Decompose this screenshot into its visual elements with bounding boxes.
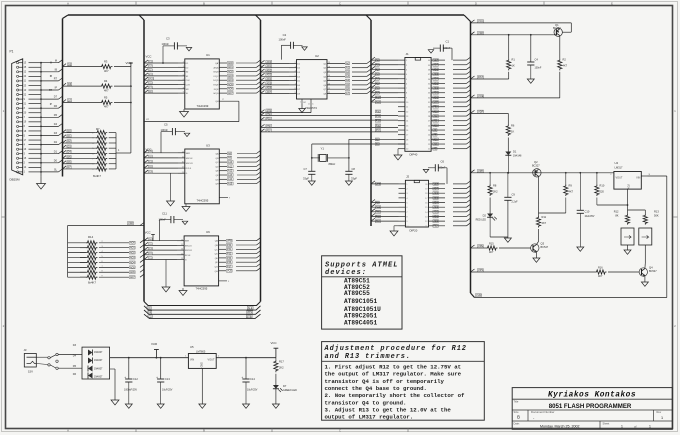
net label VPS bbox=[477, 269, 483, 272]
svg-text:AT89C1051: AT89C1051 bbox=[344, 298, 377, 305]
connector P1 pin 14 bbox=[17, 166, 19, 168]
svg-text:8: 8 bbox=[406, 216, 408, 218]
svg-text:4K7: 4K7 bbox=[104, 69, 109, 73]
net label VUR bbox=[475, 294, 481, 297]
net tag at U6 SRCLR bbox=[148, 247, 152, 250]
svg-text:Kyriakos Kontakos: Kyriakos Kontakos bbox=[548, 392, 636, 400]
svg-text:VUR: VUR bbox=[151, 342, 157, 346]
wire AD7 to right bus bbox=[453, 188, 467, 190]
wire A5 to left address bus bbox=[352, 84, 367, 86]
svg-text:A13: A13 bbox=[434, 110, 439, 113]
ground under U3 right bbox=[185, 204, 187, 207]
net label AD5 at U2 bbox=[266, 82, 272, 85]
svg-text:C7: C7 bbox=[304, 167, 308, 171]
wire A13 to right bus bbox=[453, 110, 467, 112]
wire A5 bus to J1 bbox=[371, 82, 398, 84]
svg-text:A11: A11 bbox=[228, 165, 233, 168]
bus top horizontal bbox=[68, 14, 464, 16]
J2 right pin 16 bbox=[429, 202, 446, 204]
svg-text:C13: C13 bbox=[165, 377, 170, 381]
ground under U1 bbox=[183, 109, 185, 112]
svg-text:13: 13 bbox=[406, 116, 409, 118]
wire D7 to ground bbox=[275, 389, 277, 404]
wire XTAL2 from J1 pin18 bbox=[349, 138, 405, 140]
wire AD3 bus to U2 bbox=[261, 75, 290, 77]
svg-text:C/QC: C/QC bbox=[213, 76, 219, 78]
wire P1 signal to bus bbox=[41, 125, 59, 127]
svg-text:12: 12 bbox=[181, 253, 183, 255]
J1 left pin 3 bbox=[398, 68, 405, 70]
R14 element 2 bbox=[80, 247, 86, 249]
svg-text:G/QG: G/QG bbox=[213, 93, 219, 95]
svg-text:+: + bbox=[241, 376, 243, 380]
svg-text:VCC: VCC bbox=[146, 148, 152, 152]
svg-text:QF: QF bbox=[215, 262, 219, 264]
net label P30 at U6 bbox=[226, 244, 232, 247]
bus entry diagonal left bus bbox=[59, 60, 63, 63]
svg-text:C14: C14 bbox=[250, 377, 255, 381]
svg-text:AD2: AD2 bbox=[228, 71, 233, 74]
svg-text:10uF/25V: 10uF/25V bbox=[585, 216, 595, 218]
wire A7 to left address bus bbox=[352, 93, 367, 95]
net label C1 bbox=[147, 311, 151, 314]
svg-text:Q1: Q1 bbox=[555, 23, 559, 27]
wire A9 bus to J2 bbox=[371, 202, 399, 204]
net label AD1 at J1 right bbox=[433, 91, 439, 94]
connector P1 pin 10 bbox=[17, 89, 19, 91]
U3 left pin SRCLK bbox=[178, 157, 185, 159]
J1 right pin 30 bbox=[431, 106, 445, 108]
wire P1 pin 9 to junction column bbox=[29, 98, 42, 100]
connector P1 pin 22 bbox=[17, 93, 19, 95]
svg-text:5: 5 bbox=[406, 203, 408, 205]
U3 left pin G bbox=[178, 172, 185, 174]
svg-text:R12: R12 bbox=[614, 210, 619, 214]
svg-text:8: 8 bbox=[406, 93, 408, 95]
svg-text:ALE: ALE bbox=[376, 206, 381, 209]
svg-text:DIP40: DIP40 bbox=[410, 153, 418, 157]
U2 left pin D7 bbox=[289, 88, 297, 90]
J1 left pin 8 bbox=[398, 92, 405, 94]
svg-text:C8: C8 bbox=[352, 167, 356, 171]
svg-text:Q6: Q6 bbox=[323, 85, 327, 87]
wire AD5 to right bus bbox=[453, 197, 467, 199]
wire bus to U1 SL bbox=[144, 92, 178, 94]
wire C6 tap bbox=[438, 167, 447, 169]
net tag at U1 row 8 bbox=[148, 90, 152, 93]
J2 right pin 20 bbox=[429, 183, 446, 185]
svg-text:AD3: AD3 bbox=[130, 256, 135, 259]
U6 right pin QD bbox=[219, 253, 226, 255]
svg-text:QB: QB bbox=[215, 158, 219, 160]
R14 element 3 bbox=[80, 252, 86, 254]
wire P1 pin 24 to junction column bbox=[29, 75, 42, 77]
U1 right pin E/QE bbox=[219, 84, 227, 86]
wire P1 signal to bus bbox=[41, 89, 59, 91]
resistor R2 bbox=[558, 59, 562, 71]
J2 right pin 15 bbox=[429, 206, 446, 208]
bus top entry at x=260.5 bbox=[256, 15, 261, 20]
svg-text:29: 29 bbox=[428, 111, 431, 113]
bus entry VDP right side bbox=[471, 110, 475, 113]
U3 left pin SRCLR bbox=[178, 162, 185, 164]
svg-text:12: 12 bbox=[425, 221, 428, 223]
wire D6 to resistor R4 bbox=[63, 85, 101, 87]
net label AD3 at J2 right bbox=[433, 206, 439, 209]
U6 right pin QB bbox=[219, 244, 226, 246]
bus entry VPP right bus bbox=[467, 99, 471, 102]
connector P1 pin 12 bbox=[17, 71, 19, 73]
socket J2 DIP20 box bbox=[405, 180, 428, 227]
svg-text:1: 1 bbox=[674, 109, 676, 113]
ground for C13 bbox=[160, 382, 162, 404]
title block row separator 2 bbox=[512, 409, 672, 411]
wire P1 pin 6 to junction column bbox=[29, 125, 42, 127]
crystal Y1 bbox=[320, 154, 327, 161]
adjustment procedure box bbox=[322, 342, 485, 421]
wire AD2 to right bus bbox=[453, 211, 467, 213]
wire D3 to network resistor bbox=[63, 147, 96, 149]
wire P1 signal to bus bbox=[41, 153, 59, 155]
svg-text:RCLK: RCLK bbox=[185, 255, 191, 257]
wire R9 bottom bbox=[565, 198, 567, 214]
net label A3 at J1 left bbox=[375, 73, 379, 76]
capacitor C7 bbox=[308, 170, 315, 172]
net label P33 at U6 bbox=[226, 256, 232, 259]
title block row separator 1 bbox=[512, 398, 672, 400]
svg-text:VDP: VDP bbox=[434, 184, 439, 186]
svg-text:B/QB: B/QB bbox=[214, 72, 220, 74]
svg-text:2: 2 bbox=[610, 174, 612, 176]
net label P52 at J1 left bbox=[375, 119, 381, 122]
bus entry A4 into address bus bbox=[367, 78, 371, 81]
ground for P1 shield bbox=[40, 177, 42, 184]
svg-text:2K2: 2K2 bbox=[493, 190, 498, 194]
net tag at U3 SRCLR bbox=[148, 160, 152, 163]
net label A5 at U2 bbox=[345, 83, 349, 86]
wire RST bbox=[471, 78, 509, 80]
bus entry A16 right bus bbox=[467, 136, 471, 139]
svg-text:20: 20 bbox=[406, 149, 409, 151]
svg-text:AD6: AD6 bbox=[130, 271, 135, 274]
svg-text:U1: U1 bbox=[206, 53, 210, 57]
wire AD4 to right bus bbox=[453, 202, 467, 204]
svg-text:D5: D5 bbox=[297, 81, 301, 83]
svg-text:32: 32 bbox=[428, 97, 431, 99]
svg-text:VDP: VDP bbox=[434, 60, 439, 62]
wire bus to U3 G bbox=[144, 172, 178, 174]
J2 right pin 19 bbox=[429, 188, 446, 190]
transistor Q4 BC547 bbox=[639, 268, 647, 276]
svg-text:VPS: VPS bbox=[247, 311, 252, 314]
U1 right pin D/QD bbox=[219, 79, 227, 81]
svg-text:R14: R14 bbox=[88, 235, 94, 239]
bus wire STB bottom bbox=[144, 314, 261, 318]
svg-text:VOUT: VOUT bbox=[616, 177, 623, 180]
svg-text:VCC: VCC bbox=[146, 55, 152, 59]
wire R3 to VCC node bbox=[114, 66, 131, 68]
svg-text:QC: QC bbox=[215, 162, 219, 164]
bus entry AD1 at U2 bbox=[261, 65, 265, 68]
svg-text:6: 6 bbox=[183, 79, 184, 81]
bus entry AD3 at R14 bbox=[140, 255, 144, 258]
svg-text:transistor Q4 to ground.: transistor Q4 to ground. bbox=[325, 399, 407, 406]
net label A3 at U2 bbox=[345, 75, 349, 78]
J1 right pin 40 bbox=[431, 59, 445, 61]
svg-text:8: 8 bbox=[24, 108, 26, 110]
net label A9 at J2 left bbox=[375, 201, 379, 204]
svg-text:J3: J3 bbox=[24, 348, 27, 352]
wire C3 to VCC tap bbox=[163, 45, 174, 47]
svg-text:17: 17 bbox=[222, 99, 224, 101]
U6 left pin SRCLR bbox=[177, 249, 184, 251]
svg-text:D4: D4 bbox=[297, 76, 301, 78]
title block row separator 3 bbox=[512, 420, 672, 422]
bus entry at U1 row 4 bbox=[144, 73, 148, 76]
svg-text:U6: U6 bbox=[206, 230, 210, 234]
svg-text:BC547: BC547 bbox=[649, 270, 657, 273]
svg-text:QC: QC bbox=[215, 249, 219, 251]
U1 left pin CLK bbox=[178, 79, 185, 81]
svg-text:16: 16 bbox=[406, 130, 409, 132]
svg-text:38: 38 bbox=[428, 69, 431, 71]
wire P1 signal to bus bbox=[41, 71, 59, 73]
bus entry at U3 RCLK bbox=[144, 165, 148, 168]
svg-text:SL: SL bbox=[186, 93, 189, 95]
svg-text:30: 30 bbox=[428, 107, 431, 109]
wire D1 to network resistor bbox=[63, 137, 96, 139]
wire VUR horizontal bbox=[475, 297, 667, 299]
svg-text:13: 13 bbox=[181, 258, 183, 260]
wire bus to U6 G bbox=[144, 259, 177, 261]
bus entry for D7 bbox=[63, 166, 67, 169]
wire P57 central bus to J1 bbox=[261, 131, 399, 133]
svg-text:P56: P56 bbox=[376, 125, 381, 127]
bus entry P33 into right bus bbox=[236, 257, 257, 259]
bus entry VOE right side bbox=[471, 95, 475, 98]
svg-text:4K7: 4K7 bbox=[489, 251, 494, 254]
R14 element 8 bbox=[80, 276, 86, 278]
net tag at U1 row 4 bbox=[148, 73, 152, 76]
wire VDP bbox=[471, 34, 554, 36]
net label AD7 at U1 bbox=[227, 92, 233, 95]
wire bus to U3 SRCLR bbox=[144, 162, 178, 164]
U3 right pin QG bbox=[219, 178, 227, 180]
svg-text:D7: D7 bbox=[54, 96, 58, 99]
ground for C5 bbox=[175, 131, 185, 133]
J1 left pin 4 bbox=[398, 73, 405, 75]
bus entry A14 at J1 bbox=[371, 99, 375, 102]
bus entry AD6 right bus bbox=[467, 190, 471, 193]
svg-text:9: 9 bbox=[295, 92, 296, 94]
svg-text:A/QA: A/QA bbox=[214, 66, 220, 69]
wire AE to right bus bbox=[453, 148, 467, 150]
net label D6 bbox=[67, 161, 71, 164]
svg-text:D4: D4 bbox=[54, 123, 58, 126]
wire P1 pin 21 to junction column bbox=[29, 103, 42, 105]
svg-text:39: 39 bbox=[428, 65, 431, 67]
bus entry P54 at J2 bbox=[371, 218, 375, 221]
bus entry A7 into address bus bbox=[367, 91, 371, 94]
capacitor C9 bbox=[507, 173, 509, 197]
svg-text:D7: D7 bbox=[283, 384, 287, 388]
net label VDP bbox=[477, 32, 483, 35]
wire P1 pin 8 to junction column bbox=[29, 107, 42, 109]
ground under U6 left bbox=[165, 260, 167, 288]
svg-text:R1: R1 bbox=[512, 58, 516, 62]
svg-text:9: 9 bbox=[183, 92, 184, 94]
U1 left pin SR bbox=[178, 88, 185, 90]
connector P1 pin 3 bbox=[17, 153, 19, 155]
capacitor C14 bbox=[245, 357, 247, 359]
svg-text:RT: RT bbox=[54, 78, 58, 81]
wire RST bus to J1 bbox=[371, 96, 398, 98]
svg-text:A10: A10 bbox=[228, 161, 233, 164]
net label AD4 at J1 right bbox=[433, 77, 439, 80]
wire P1 pin 11 to junction column bbox=[29, 80, 42, 82]
ground for C14 bbox=[245, 382, 247, 404]
net label AD2 at J1 right bbox=[433, 87, 439, 90]
J1 right pin 29 bbox=[431, 110, 445, 112]
bus entry diagonal left bus bbox=[59, 87, 63, 90]
net label P56 bbox=[266, 124, 272, 127]
wire bus to U1 S1 bbox=[144, 75, 178, 77]
svg-text:14: 14 bbox=[425, 212, 428, 214]
svg-text:R2: R2 bbox=[563, 58, 567, 62]
J1 right pin 27 bbox=[431, 120, 445, 122]
wire AD4 bus to U2 bbox=[261, 80, 290, 82]
svg-text:P30: P30 bbox=[227, 244, 232, 247]
junction dot bbox=[40, 116, 42, 118]
svg-text:19: 19 bbox=[406, 144, 409, 146]
wire VPP to right bus bbox=[453, 101, 467, 103]
net label P32 at U6 bbox=[226, 252, 232, 255]
net label P36 at U6 bbox=[226, 261, 232, 264]
U2 right pin Q5 bbox=[327, 80, 345, 82]
svg-text:AD1: AD1 bbox=[228, 66, 233, 69]
J2 left pin 9 bbox=[399, 220, 406, 222]
U6 right pin QC bbox=[219, 248, 226, 250]
wire bus to U3 SRCLK bbox=[144, 157, 178, 159]
U2 left pin D3 bbox=[289, 71, 297, 73]
wire P1 pin 19 to junction column bbox=[29, 121, 42, 123]
net label X2 at J1 left bbox=[375, 138, 379, 141]
bus entry at U1 row 2 bbox=[144, 64, 148, 67]
bus entry for D6 bbox=[63, 161, 67, 164]
wire VCC down to Q1 base bbox=[570, 23, 572, 32]
wire Q1 base bbox=[562, 31, 571, 33]
wire bus to U1 SR bbox=[144, 88, 178, 90]
wire A10 to right bus bbox=[453, 124, 467, 126]
svg-text:10: 10 bbox=[24, 90, 27, 92]
svg-text:20: 20 bbox=[24, 113, 27, 115]
bus entry at U1 row 5 bbox=[144, 77, 148, 80]
svg-text:D/QD: D/QD bbox=[213, 80, 219, 82]
net label A9 at J1 right bbox=[433, 129, 437, 132]
bus entry AD0 right bus bbox=[467, 94, 471, 97]
wire VPP bus to J2 bbox=[371, 183, 399, 185]
wire R5 to VCC vertical bbox=[114, 102, 131, 104]
net label A0 at J1 left bbox=[375, 59, 379, 62]
svg-text:11: 11 bbox=[24, 81, 27, 83]
svg-text:14: 14 bbox=[182, 151, 184, 153]
svg-text:21: 21 bbox=[428, 149, 431, 151]
svg-text:Rev: Rev bbox=[657, 410, 662, 414]
bus entry AD7 at R14 bbox=[140, 274, 144, 277]
svg-text:Q8: Q8 bbox=[323, 94, 327, 96]
capacitor C12 bbox=[128, 357, 130, 359]
U6 right pin QA bbox=[219, 240, 226, 242]
bus entry A0 at J1 bbox=[371, 57, 375, 60]
wire P1 pin 2 to junction column bbox=[29, 162, 42, 164]
svg-text:14: 14 bbox=[328, 84, 330, 86]
svg-text:7: 7 bbox=[183, 83, 184, 85]
wire D6 to network resistor bbox=[63, 163, 96, 165]
wire AD0 bus to U2 bbox=[261, 62, 290, 64]
wire P1 pin 15 to junction column bbox=[29, 157, 42, 159]
svg-text:14: 14 bbox=[406, 121, 409, 123]
wire A16 to right bus bbox=[453, 138, 467, 140]
wire A0 bus to J1 bbox=[371, 59, 398, 61]
svg-text:20: 20 bbox=[425, 184, 428, 186]
bus entry AD2 right bus bbox=[467, 85, 471, 88]
svg-text:R9: R9 bbox=[569, 184, 573, 188]
svg-text:21: 21 bbox=[24, 103, 27, 105]
svg-text:QG: QG bbox=[215, 267, 219, 269]
svg-text:P50: P50 bbox=[267, 113, 272, 116]
wire AD4 to right bus bbox=[453, 78, 467, 80]
svg-text:SRCLR: SRCLR bbox=[185, 250, 193, 252]
net label VPS bbox=[247, 311, 253, 314]
svg-text:10: 10 bbox=[406, 102, 409, 104]
svg-text:AD5: AD5 bbox=[130, 266, 135, 269]
wire A0 to left address bus bbox=[352, 62, 367, 64]
net label P57 bbox=[266, 129, 272, 132]
net label VDP at J1 right bbox=[433, 59, 439, 62]
net label AD0 at U1 bbox=[227, 62, 233, 65]
bus entry A5 at J1 bbox=[371, 80, 375, 83]
bus entry at U6 G bbox=[144, 257, 148, 260]
svg-text:AD6: AD6 bbox=[434, 68, 439, 71]
svg-text:1N4007: 1N4007 bbox=[94, 376, 103, 379]
wire A14 bus to J1 bbox=[371, 101, 398, 103]
net label AD3 at R14 bbox=[129, 256, 135, 259]
svg-text:A12: A12 bbox=[434, 115, 439, 118]
U6 left pin SER bbox=[177, 240, 184, 242]
bus entry A12 right bus bbox=[467, 113, 471, 116]
net label A11 at J1 right bbox=[433, 119, 439, 122]
svg-text:11: 11 bbox=[308, 104, 310, 106]
resistor R6 bbox=[507, 113, 509, 124]
svg-text:QE: QE bbox=[215, 171, 219, 173]
R14 element 1 bbox=[68, 242, 86, 244]
U1 left pin SL bbox=[178, 92, 185, 94]
bus entry VDP right bus bbox=[467, 181, 471, 184]
svg-text:P32: P32 bbox=[434, 226, 439, 228]
svg-text:14: 14 bbox=[24, 167, 27, 169]
bus entry A1 at J1 bbox=[371, 62, 375, 65]
svg-text:J1: J1 bbox=[406, 52, 410, 56]
svg-text:VCC: VCC bbox=[149, 79, 154, 81]
ground under U3 left bbox=[170, 173, 172, 201]
junction dots on VDP line bbox=[508, 34, 510, 36]
svg-text:A: A bbox=[67, 429, 69, 433]
svg-text:7: 7 bbox=[406, 88, 408, 90]
svg-text:G: G bbox=[186, 173, 188, 175]
U3 right pin QB bbox=[219, 157, 227, 159]
wire Q1 emitter to VDP bbox=[554, 34, 557, 36]
title block outline bbox=[512, 388, 672, 430]
